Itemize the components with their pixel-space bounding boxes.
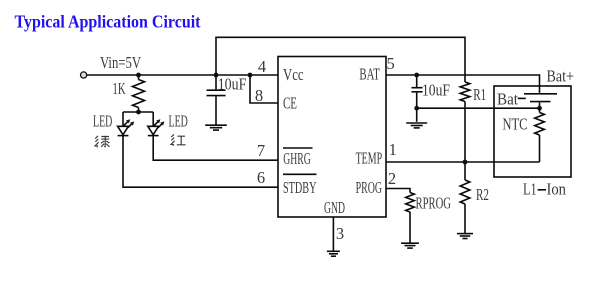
svg-text:Vin=5V: Vin=5V xyxy=(100,53,141,72)
wire STDBY from green LED to pin 6 xyxy=(123,136,278,188)
battery BT1 plates xyxy=(524,94,557,108)
svg-text:Ion: Ion xyxy=(547,179,567,198)
svg-text:PROG: PROG xyxy=(356,178,383,197)
wire TEMP pin 1 xyxy=(386,161,540,163)
battery pack box Li-Ion xyxy=(494,86,571,177)
resistor RPROG xyxy=(406,193,451,243)
ground C1 xyxy=(205,125,227,130)
wire PROG pin 2 to RPROG xyxy=(386,189,410,193)
svg-text:LED: LED xyxy=(93,112,112,131)
ground C2 xyxy=(406,123,427,128)
svg-text:10uF: 10uF xyxy=(218,74,247,93)
resistor R1 xyxy=(460,82,486,162)
resistor R2 xyxy=(460,162,489,233)
pin 1 xyxy=(389,140,397,159)
svg-text:4: 4 xyxy=(258,57,266,76)
ground pin 3 xyxy=(327,251,340,256)
svg-text:1K: 1K xyxy=(113,79,126,98)
svg-text:L1: L1 xyxy=(523,179,537,198)
svg-text:STDBY: STDBY xyxy=(283,178,317,197)
svg-text:8: 8 xyxy=(255,86,263,105)
wire Vin to Vcc pin 4 xyxy=(87,74,278,76)
label 红 (red) xyxy=(171,134,186,145)
LED D1 green xyxy=(93,112,134,136)
title text xyxy=(15,12,201,32)
pin 7 xyxy=(257,141,265,160)
wire Bat- return xyxy=(417,107,540,109)
svg-text:NTC: NTC xyxy=(503,115,528,134)
wire CE branch to pin 8 xyxy=(250,75,278,103)
wire LED split xyxy=(123,111,153,113)
node BAT / C2 junction xyxy=(414,73,419,78)
node Vin / CE branch junction xyxy=(248,73,253,78)
label L1-Ion xyxy=(523,179,566,198)
svg-text:TEMP: TEMP xyxy=(356,148,383,167)
pin 3 xyxy=(336,224,344,243)
svg-text:Bat+: Bat+ xyxy=(547,66,575,85)
svg-text:Vcc: Vcc xyxy=(283,65,304,84)
svg-text:GND: GND xyxy=(324,198,345,217)
svg-text:7: 7 xyxy=(257,141,265,160)
label Bat- xyxy=(497,89,526,108)
svg-text:LED: LED xyxy=(169,112,188,131)
svg-text:5: 5 xyxy=(386,54,394,73)
svg-text:GHRG: GHRG xyxy=(283,149,311,168)
pin 4 xyxy=(258,57,266,76)
svg-text:10uF: 10uF xyxy=(422,80,450,99)
node C2 bottom / Bat- wire junction xyxy=(414,106,419,111)
svg-text:3: 3 xyxy=(336,224,344,243)
svg-text:6: 6 xyxy=(257,168,265,187)
pin 5 xyxy=(386,54,394,73)
svg-text:Bat: Bat xyxy=(497,89,518,108)
svg-text:2: 2 xyxy=(388,169,396,188)
pin 6 xyxy=(257,168,265,187)
pin 8 xyxy=(255,86,263,105)
svg-text:BAT: BAT xyxy=(359,64,379,83)
ground R2 xyxy=(457,234,473,239)
op-amp U1 charger IC body xyxy=(278,57,386,218)
svg-text:R1: R1 xyxy=(473,85,486,104)
label Bat+ xyxy=(547,66,575,85)
node Vin / C1 / top wire junction xyxy=(214,73,219,78)
svg-text:1: 1 xyxy=(389,140,397,159)
thermistor NTC xyxy=(503,108,545,162)
capacitor C2 10uF xyxy=(412,75,451,122)
wire BAT pin 5 to battery xyxy=(386,75,540,93)
label 绿 (green) xyxy=(95,136,109,148)
ground RPROG xyxy=(401,243,419,248)
wire top rail Vin to R1 xyxy=(216,37,465,82)
wire CHRG from red LED to pin 7 xyxy=(153,136,278,161)
node TEMP / R1 / R2 junction xyxy=(463,160,468,165)
capacitor C1 10uF xyxy=(207,74,247,124)
svg-text:CE: CE xyxy=(283,94,297,113)
input terminal Vin xyxy=(81,53,142,78)
svg-text:R2: R2 xyxy=(476,185,489,204)
wire GND pin 3 xyxy=(332,217,334,251)
resistor R_1K 1K xyxy=(113,75,145,112)
svg-text:Typical Application Circuit: Typical Application Circuit xyxy=(15,12,201,32)
node Vin / R 1K junction xyxy=(136,73,141,78)
node 1K bottom / LED split junction xyxy=(136,110,141,115)
LED D2 red xyxy=(148,112,188,136)
node battery minus / NTC junction xyxy=(537,106,542,111)
pin 2 xyxy=(388,169,396,188)
svg-text:RPROG: RPROG xyxy=(416,193,452,212)
